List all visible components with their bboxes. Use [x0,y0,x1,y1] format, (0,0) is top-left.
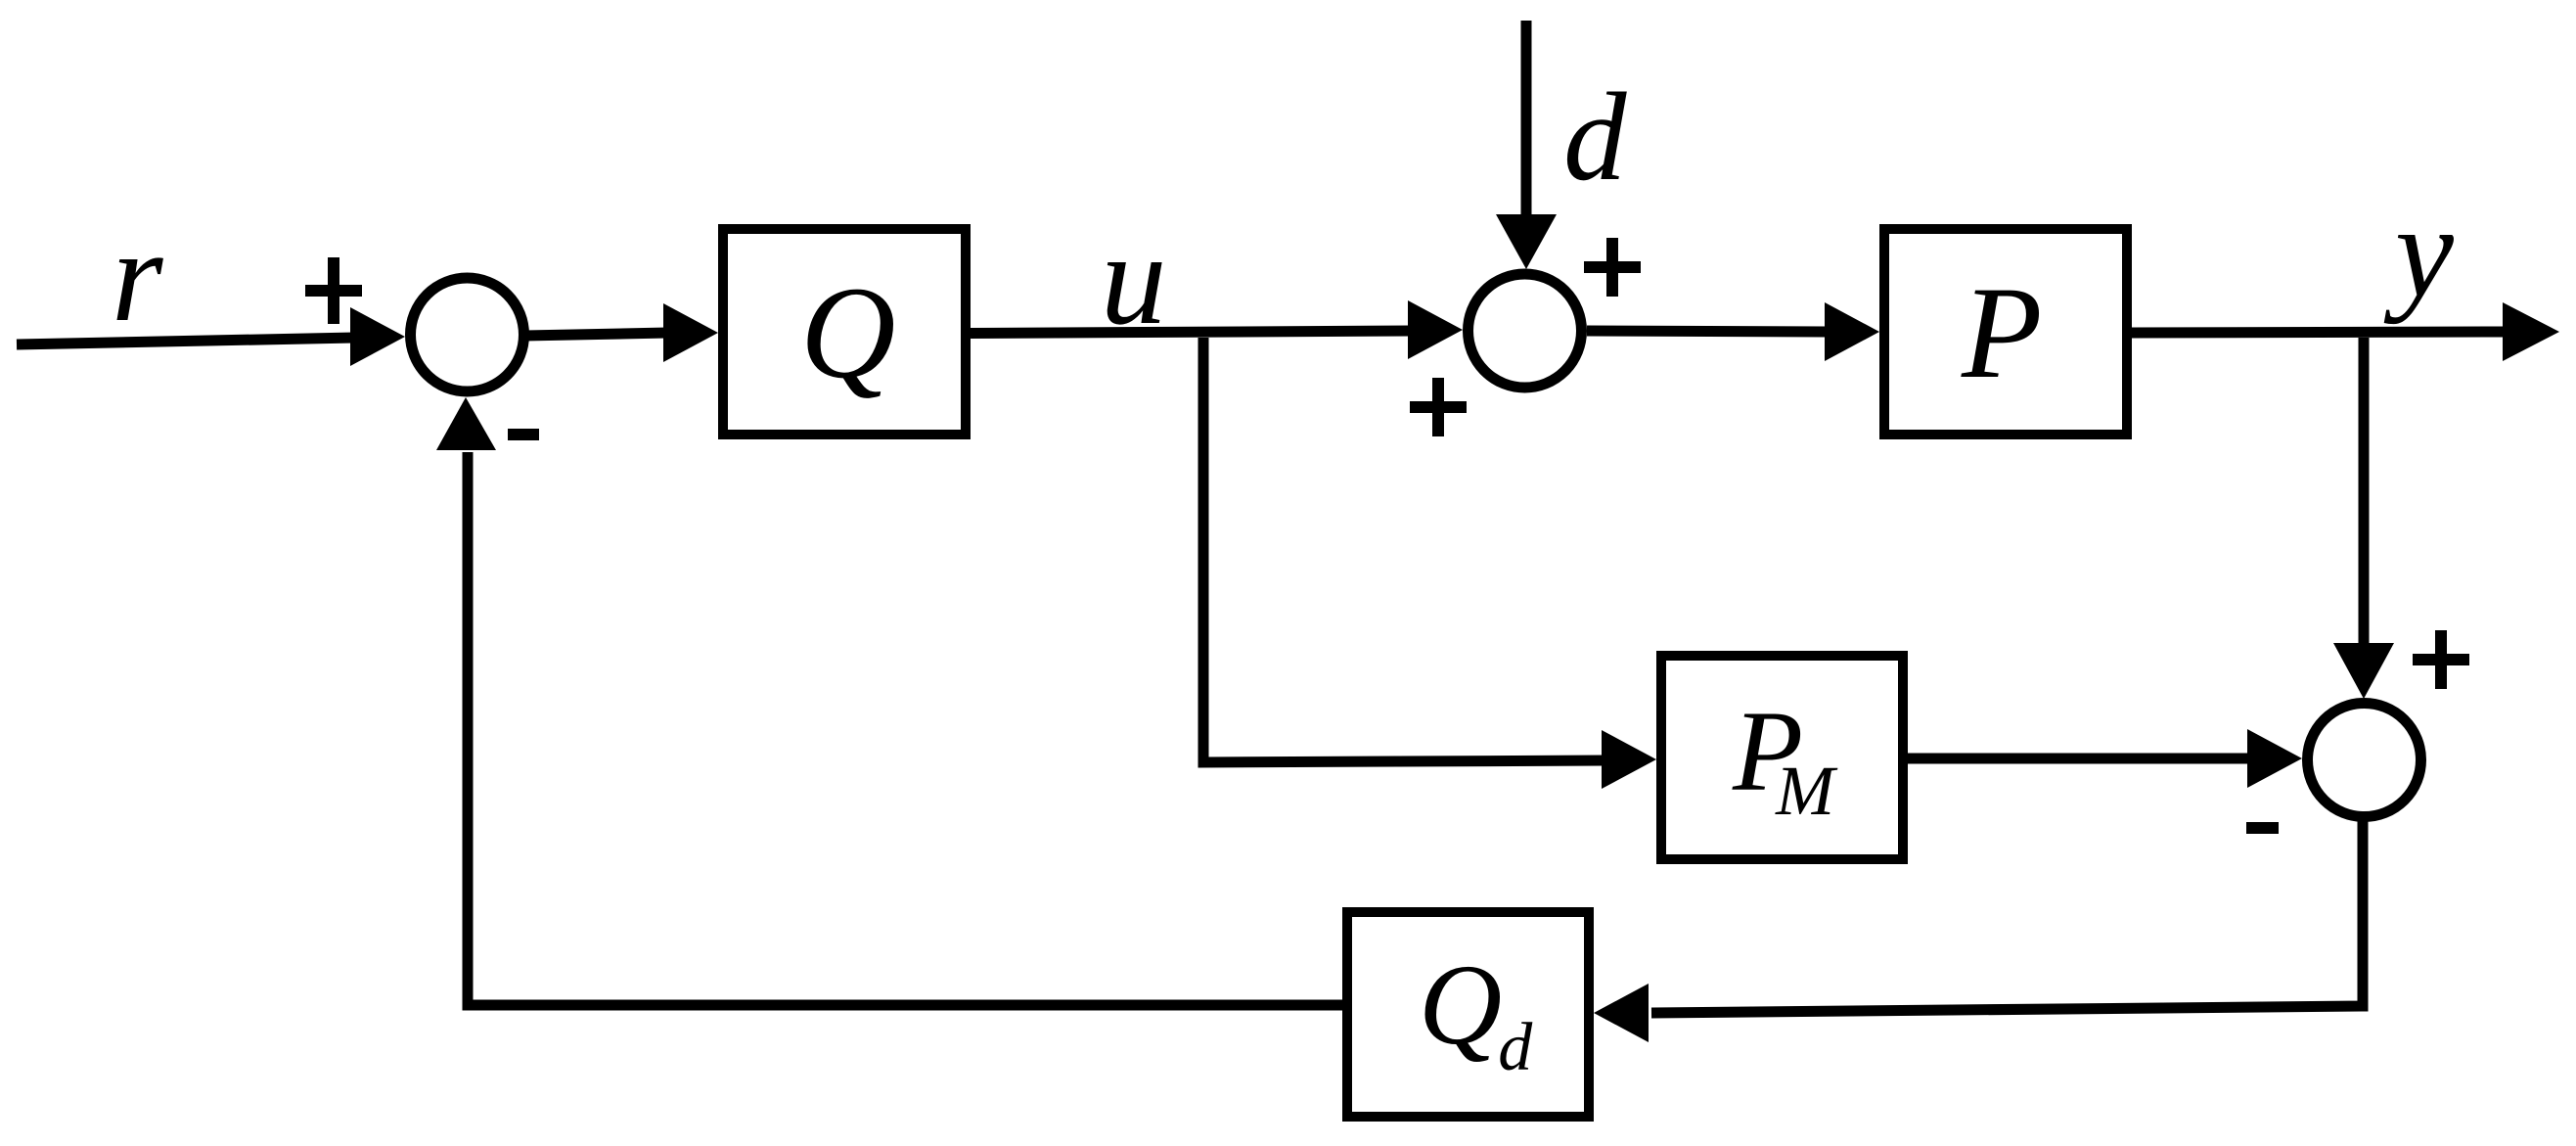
svg-text:P: P [1961,260,2042,406]
svg-text:d: d [1563,67,1627,206]
svg-text:r: r [112,204,163,349]
svg-text:Q: Q [800,260,896,406]
svg-text:u: u [1101,206,1167,352]
